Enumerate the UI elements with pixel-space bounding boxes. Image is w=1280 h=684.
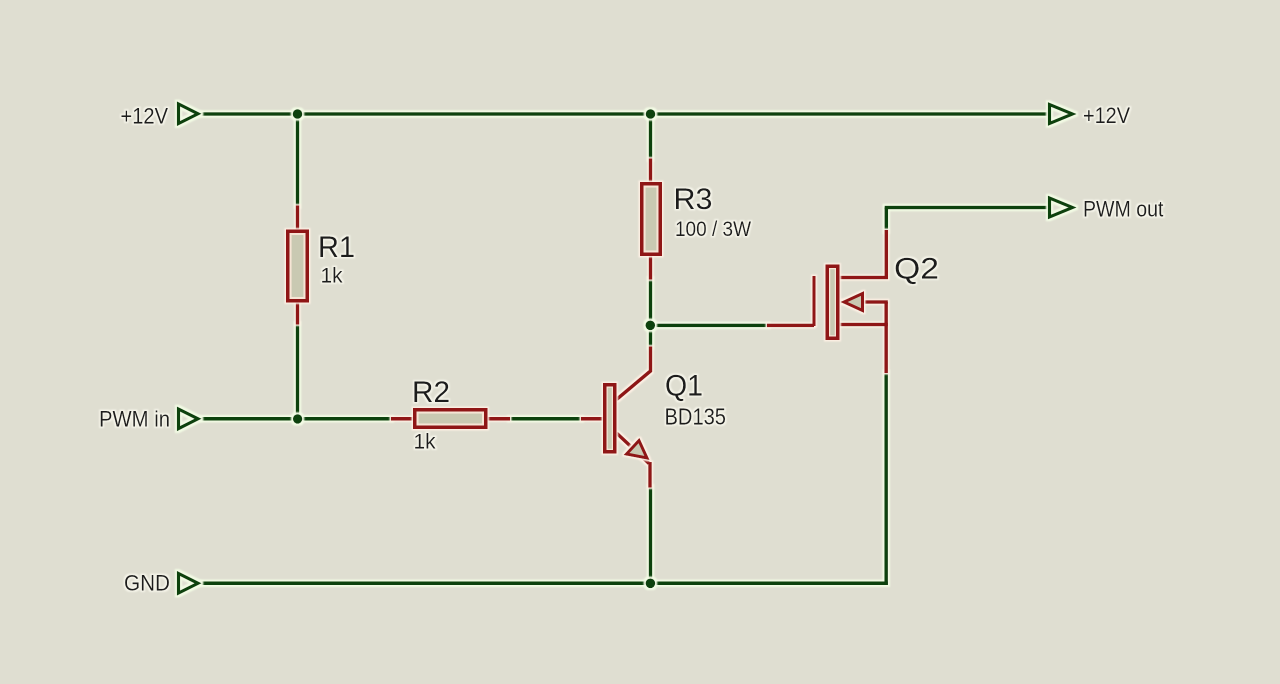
wire PWM in bbox=[198, 417, 392, 421]
wire +12V rail top bbox=[198, 112, 1049, 116]
resistor R2 body bbox=[415, 410, 486, 428]
junction dot R3 top bbox=[646, 109, 656, 119]
svg-text:BD135: BD135 bbox=[665, 404, 727, 430]
svg-text:+12V: +12V bbox=[121, 104, 169, 129]
junction dot collector node bbox=[646, 321, 656, 331]
wire R2 to Q1 base bbox=[509, 417, 582, 421]
transistor Q1 base pin bbox=[581, 417, 604, 421]
resistor R1 top pin bbox=[296, 206, 300, 232]
mosfet Q2 drain tab bbox=[838, 276, 888, 280]
svg-text:1k: 1k bbox=[414, 431, 436, 454]
svg-text:Q2: Q2 bbox=[894, 253, 939, 286]
mosfet Q2 source pin vertical bbox=[884, 302, 888, 373]
svg-text:PWM in: PWM in bbox=[99, 407, 170, 432]
mosfet Q2 bulk arrow bbox=[844, 294, 863, 311]
mosfet Q2 gate bar bbox=[813, 276, 816, 326]
wire R1 top drop bbox=[296, 114, 300, 207]
mosfet Q2 gate pin bbox=[767, 324, 814, 328]
junction dot R1 top bbox=[293, 109, 303, 119]
svg-text:1k: 1k bbox=[321, 265, 343, 288]
svg-text:100 / 3W: 100 / 3W bbox=[675, 218, 751, 241]
svg-text:GND: GND bbox=[124, 571, 170, 596]
junction dot emitter GND bbox=[646, 579, 656, 589]
terminal arrow +12V left bbox=[179, 104, 199, 124]
mosfet Q2 bulk stub bbox=[839, 300, 845, 304]
wire PWM out bbox=[885, 206, 1049, 210]
junction dot PWM in / R1 bbox=[293, 414, 302, 423]
mosfet Q2 source tab bbox=[838, 323, 888, 327]
svg-text:PWM out: PWM out bbox=[1083, 197, 1164, 222]
svg-text:R1: R1 bbox=[318, 231, 355, 264]
resistor R3 body bbox=[642, 184, 661, 255]
wire node to Q1 collector bbox=[649, 325, 653, 348]
terminal arrow PWM out bbox=[1050, 198, 1073, 217]
resistor R2 left pin bbox=[391, 417, 414, 421]
wire Q1 emitter to GND bbox=[649, 486, 653, 583]
transistor Q1 base plate bbox=[605, 385, 615, 452]
wire R3 top drop bbox=[649, 114, 653, 160]
wire Q2 drain up bbox=[885, 208, 889, 233]
wire R1 bottom to PWM in rail bbox=[296, 323, 300, 420]
mosfet Q2 drain pin vertical bbox=[885, 230, 889, 279]
resistor R3 bottom pin bbox=[649, 254, 653, 280]
svg-text:R3: R3 bbox=[674, 183, 713, 216]
svg-text:+12V: +12V bbox=[1083, 103, 1130, 128]
resistor R1 body bbox=[288, 231, 308, 301]
wire GND rail bbox=[198, 582, 888, 586]
svg-text:R2: R2 bbox=[412, 376, 450, 409]
transistor Q1 emitter arrow bbox=[627, 441, 648, 459]
terminal arrow GND bbox=[179, 574, 199, 594]
transistor Q1 emitter diagonal bbox=[617, 433, 650, 464]
terminal arrow +12V right bbox=[1050, 105, 1073, 124]
resistor R3 top pin bbox=[649, 159, 653, 185]
mosfet Q2 channel plate bbox=[827, 266, 838, 338]
wire Q2 source down to GND bbox=[884, 372, 888, 586]
transistor Q1 collector pin bbox=[617, 347, 651, 400]
resistor R1 bottom pin bbox=[296, 300, 300, 325]
terminal arrow PWM in bbox=[179, 409, 199, 429]
resistor R2 right pin bbox=[486, 417, 510, 421]
wire R3 bottom to node bbox=[649, 278, 653, 327]
transistor Q1 emitter pin vertical bbox=[648, 462, 652, 488]
mosfet Q2 bulk line bbox=[861, 300, 888, 304]
svg-text:Q1: Q1 bbox=[665, 370, 703, 403]
wire node to Q2 gate bbox=[651, 324, 770, 328]
